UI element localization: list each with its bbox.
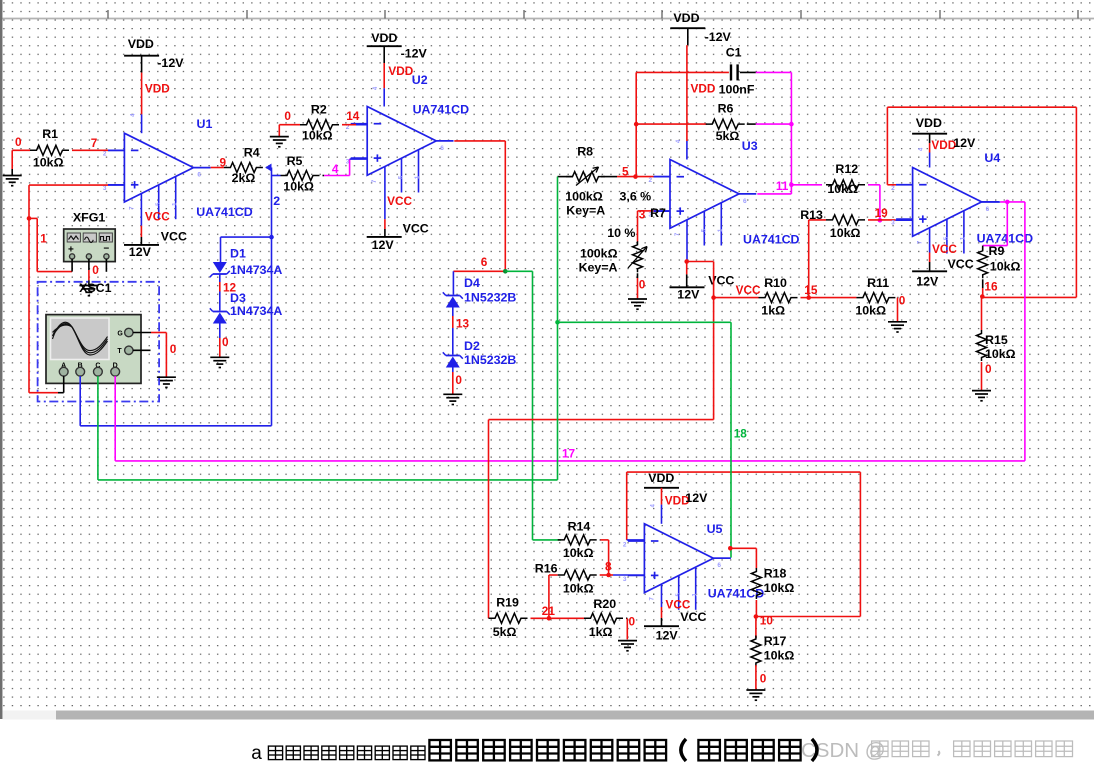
svg-text:6: 6	[743, 198, 747, 205]
svg-text:VCC: VCC	[161, 230, 187, 244]
svg-text:U5: U5	[707, 522, 723, 536]
svg-text:XFG1: XFG1	[73, 211, 105, 225]
svg-text:19: 19	[875, 206, 889, 220]
svg-text:R8: R8	[577, 145, 593, 159]
svg-text:13: 13	[456, 317, 470, 331]
svg-text:2: 2	[649, 177, 653, 184]
svg-text:D3: D3	[230, 291, 246, 305]
svg-text:3: 3	[639, 208, 646, 222]
svg-text:VDD: VDD	[673, 11, 699, 25]
svg-text:5: 5	[622, 165, 629, 179]
svg-text:U1: U1	[197, 117, 213, 131]
svg-text:VDD: VDD	[128, 37, 154, 51]
svg-text:0: 0	[899, 293, 906, 307]
svg-text:T: T	[117, 348, 122, 355]
svg-text:10kΩ: 10kΩ	[827, 182, 858, 196]
svg-text:18: 18	[734, 426, 748, 440]
svg-text:100kΩ: 100kΩ	[580, 246, 618, 260]
svg-text:0: 0	[92, 263, 99, 277]
svg-text:14: 14	[346, 109, 360, 123]
svg-text:2: 2	[891, 185, 895, 192]
svg-text:R13: R13	[800, 208, 823, 222]
svg-text:VDD: VDD	[648, 471, 674, 485]
svg-text:10kΩ: 10kΩ	[830, 226, 861, 240]
svg-text:12V: 12V	[953, 136, 976, 150]
svg-text:10kΩ: 10kΩ	[563, 582, 594, 596]
svg-text:6: 6	[986, 206, 990, 213]
svg-text:10kΩ: 10kΩ	[764, 581, 795, 595]
svg-text:D4: D4	[464, 276, 480, 290]
svg-text:VCC: VCC	[403, 222, 429, 236]
svg-text:1N5232B: 1N5232B	[464, 353, 516, 367]
svg-text:-12V: -12V	[705, 30, 732, 44]
svg-text:12V: 12V	[916, 274, 939, 288]
svg-text:U3: U3	[742, 139, 758, 153]
svg-text:VDD: VDD	[371, 31, 397, 45]
svg-text:16: 16	[984, 280, 998, 294]
svg-text:10: 10	[760, 614, 774, 628]
svg-text:R9: R9	[989, 244, 1005, 258]
svg-text:U4: U4	[984, 151, 1000, 165]
svg-text:0: 0	[629, 614, 636, 628]
svg-text:UA741CD: UA741CD	[413, 103, 470, 117]
svg-text:1N4734A: 1N4734A	[230, 263, 282, 277]
svg-text:D1: D1	[230, 247, 246, 261]
svg-text:100kΩ: 100kΩ	[565, 190, 603, 204]
svg-text:5kΩ: 5kΩ	[493, 625, 517, 639]
svg-text:1kΩ: 1kΩ	[761, 304, 785, 318]
svg-text:2: 2	[103, 151, 107, 158]
svg-text:0: 0	[170, 342, 177, 356]
svg-text:VDD: VDD	[145, 81, 170, 95]
svg-text:15: 15	[804, 283, 818, 297]
svg-text:VDD: VDD	[388, 64, 413, 78]
svg-text:R11: R11	[867, 276, 889, 290]
svg-text:12V: 12V	[677, 288, 700, 302]
svg-text:2kΩ: 2kΩ	[232, 171, 256, 185]
svg-text:Key=A: Key=A	[579, 261, 618, 275]
svg-text:1: 1	[40, 232, 47, 246]
svg-text:6: 6	[717, 562, 721, 569]
svg-text:R7: R7	[650, 206, 666, 220]
svg-text:R19: R19	[496, 596, 519, 610]
svg-text:12V: 12V	[372, 238, 395, 252]
svg-text:R20: R20	[593, 597, 616, 611]
svg-text:R2: R2	[311, 103, 327, 117]
svg-text:0: 0	[455, 373, 462, 387]
svg-text:-12V: -12V	[401, 47, 428, 61]
svg-text:12V: 12V	[656, 628, 679, 642]
svg-text:10kΩ: 10kΩ	[855, 304, 886, 318]
svg-text:VCC: VCC	[948, 257, 974, 271]
svg-text:U2: U2	[412, 73, 428, 87]
svg-text:10kΩ: 10kΩ	[764, 648, 795, 662]
svg-text:0: 0	[639, 278, 646, 292]
svg-text:0: 0	[222, 335, 229, 349]
svg-text:R16: R16	[535, 562, 558, 576]
svg-text:Key=A: Key=A	[566, 203, 605, 217]
svg-text:4: 4	[332, 162, 339, 176]
svg-text:R14: R14	[568, 520, 591, 534]
svg-text:6: 6	[197, 172, 201, 179]
svg-text:UA741CD: UA741CD	[196, 205, 253, 219]
svg-text:R15: R15	[985, 333, 1008, 347]
svg-text:5kΩ: 5kΩ	[716, 129, 740, 143]
svg-text:R1: R1	[42, 127, 58, 141]
svg-text:UA741CD: UA741CD	[743, 232, 800, 246]
svg-text:10kΩ: 10kΩ	[283, 180, 314, 194]
svg-text:10kΩ: 10kΩ	[990, 259, 1021, 273]
svg-text:3,6 %: 3,6 %	[620, 190, 652, 204]
svg-text:11: 11	[776, 179, 789, 193]
svg-text:6: 6	[440, 145, 444, 152]
svg-text:VDD: VDD	[916, 116, 942, 130]
svg-text:2: 2	[623, 541, 627, 548]
svg-text:2: 2	[273, 194, 280, 208]
svg-text:VCC: VCC	[145, 210, 170, 224]
svg-text:1kΩ: 1kΩ	[589, 625, 613, 639]
svg-text:a: a	[251, 743, 262, 764]
svg-text:VCC: VCC	[708, 273, 734, 287]
svg-text:−: −	[103, 244, 109, 255]
svg-text:C1: C1	[726, 45, 742, 59]
svg-text:3: 3	[103, 185, 107, 192]
svg-text:R5: R5	[287, 154, 303, 168]
svg-text:VDD: VDD	[691, 82, 716, 96]
svg-text:17: 17	[562, 447, 576, 461]
svg-text:12V: 12V	[129, 245, 152, 259]
svg-text:R18: R18	[764, 567, 787, 581]
svg-text:D2: D2	[464, 339, 480, 353]
svg-text:-12V: -12V	[157, 56, 184, 70]
svg-text:6: 6	[481, 255, 488, 269]
svg-text:10 %: 10 %	[607, 226, 635, 240]
svg-text:10kΩ: 10kΩ	[33, 156, 64, 170]
svg-text:R17: R17	[764, 634, 787, 648]
svg-text:VCC: VCC	[736, 283, 761, 297]
svg-text:XSC1: XSC1	[79, 281, 111, 295]
svg-text:3: 3	[891, 220, 895, 227]
svg-text:R6: R6	[718, 102, 734, 116]
svg-text:R10: R10	[764, 276, 787, 290]
svg-text:0: 0	[284, 109, 291, 123]
svg-text:0: 0	[15, 135, 22, 149]
svg-text:100nF: 100nF	[719, 83, 755, 97]
svg-text:R4: R4	[244, 145, 260, 159]
svg-text:VCC: VCC	[387, 194, 412, 208]
svg-text:VCC: VCC	[680, 610, 706, 624]
svg-text:12V: 12V	[685, 491, 708, 505]
svg-text:0: 0	[760, 672, 767, 686]
svg-text:R12: R12	[835, 162, 858, 176]
svg-text:1N4734A: 1N4734A	[230, 304, 282, 318]
svg-text:1N5232B: 1N5232B	[464, 291, 516, 305]
svg-text:0: 0	[985, 362, 992, 376]
svg-text:8: 8	[605, 559, 612, 573]
svg-text:3: 3	[623, 576, 627, 583]
svg-text:10kΩ: 10kΩ	[302, 129, 333, 143]
svg-text:G: G	[117, 330, 123, 337]
svg-text:7: 7	[91, 136, 98, 150]
svg-text:21: 21	[542, 604, 556, 618]
svg-text:10kΩ: 10kΩ	[985, 347, 1016, 361]
svg-text:10kΩ: 10kΩ	[563, 546, 594, 560]
svg-text:VCC: VCC	[932, 242, 957, 256]
